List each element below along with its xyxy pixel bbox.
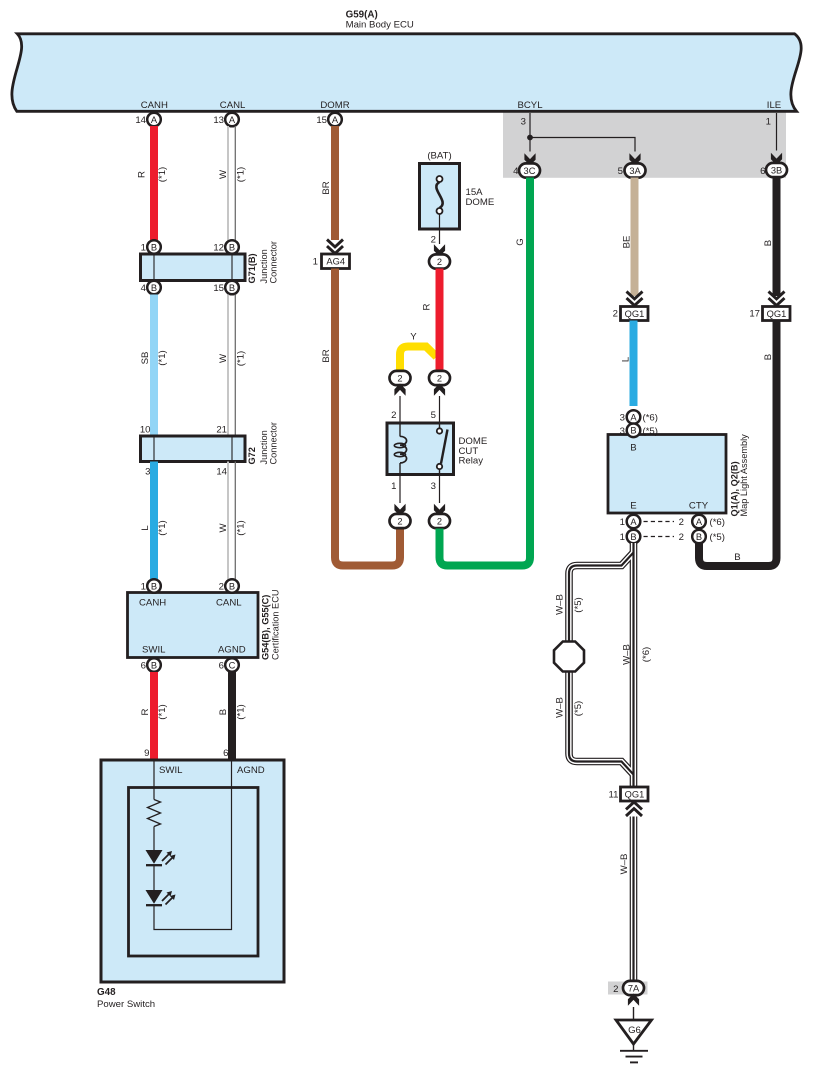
svg-text:A: A: [630, 412, 637, 422]
arrow chevrons into QG1 17: [769, 292, 785, 306]
svg-text:B: B: [734, 552, 740, 563]
svg-text:(*1): (*1): [236, 351, 247, 366]
svg-text:B: B: [696, 532, 702, 542]
arrow up into 7A: [628, 994, 639, 1006]
arrow into 3B: [771, 153, 782, 165]
svg-text:(BAT): (BAT): [427, 151, 451, 162]
svg-text:11: 11: [609, 790, 619, 801]
connector QG1 pin11: [621, 787, 649, 801]
svg-text:G54(B), G55(C): G54(B), G55(C): [261, 595, 271, 660]
svg-text:QG1: QG1: [767, 309, 787, 319]
LED 1: [146, 850, 163, 864]
svg-text:3: 3: [431, 481, 436, 492]
svg-text:4: 4: [141, 283, 147, 294]
svg-text:ILE: ILE: [767, 100, 781, 111]
wire Y: [400, 347, 437, 372]
power switch G48 box: [101, 760, 284, 982]
certification ECU G54(B) G55(C): [128, 593, 259, 658]
svg-text:SB: SB: [140, 352, 151, 365]
wire BCYL pin3 down: [529, 113, 531, 152]
wire: [153, 866, 155, 890]
connector 2 relay pin5: [429, 371, 450, 385]
svg-text:Connector: Connector: [269, 422, 279, 464]
svg-text:Junction: Junction: [259, 249, 269, 283]
svg-text:3A: 3A: [629, 166, 641, 176]
wire L left: [150, 462, 158, 580]
svg-text:2: 2: [397, 516, 402, 526]
wire W-B bottom: [630, 817, 638, 982]
svg-text:L: L: [140, 525, 151, 531]
wire bottom U: [154, 760, 232, 930]
svg-text:W: W: [218, 169, 229, 179]
svg-text:1: 1: [141, 582, 146, 593]
wire W middle: [227, 295, 229, 437]
svg-text:2: 2: [437, 257, 442, 267]
svg-text:Y: Y: [410, 332, 417, 343]
svg-text:BCYL: BCYL: [517, 100, 543, 111]
svg-text:2: 2: [679, 517, 684, 528]
wire BR from DOMR: [331, 126, 339, 240]
wire G from 3C to relay: [440, 178, 531, 566]
svg-text:1: 1: [313, 257, 318, 268]
svg-text:CANH: CANH: [139, 598, 166, 609]
wire W from CANL: [227, 126, 229, 241]
svg-text:Junction: Junction: [259, 430, 269, 464]
arrow up relay pin2: [394, 384, 405, 396]
svg-text:10: 10: [140, 425, 151, 436]
connector 2 below relay pin1: [390, 514, 411, 528]
svg-text:(*1): (*1): [236, 520, 247, 535]
svg-text:B: B: [763, 240, 774, 246]
svg-text:1: 1: [141, 243, 146, 254]
pin 3 B (*5): [627, 424, 641, 438]
svg-text:2: 2: [391, 410, 396, 421]
pin 3 A (*6): [627, 410, 641, 424]
junction node: [527, 135, 533, 141]
svg-text:3: 3: [620, 426, 625, 437]
pin 6 C (AGND): [225, 658, 239, 672]
svg-text:12: 12: [213, 243, 224, 254]
svg-text:E: E: [630, 501, 636, 512]
svg-text:2: 2: [431, 235, 436, 246]
svg-text:B: B: [151, 242, 157, 252]
wire R from CANH: [150, 126, 158, 242]
pin 1 A (E): [627, 515, 641, 529]
connector 2 below relay pin3: [429, 514, 450, 528]
svg-text:A: A: [151, 115, 158, 125]
connector QG1 pin17: [763, 307, 791, 321]
svg-text:(*1): (*1): [157, 704, 168, 719]
junction connector G71(B): [141, 254, 246, 281]
svg-text:AGND: AGND: [237, 765, 265, 776]
svg-text:(*6): (*6): [643, 413, 658, 424]
connector 7A: [623, 981, 644, 995]
svg-text:B: B: [151, 283, 157, 293]
svg-text:1: 1: [620, 517, 625, 528]
wire to ground: [633, 1007, 635, 1020]
svg-text:CANL: CANL: [220, 100, 246, 111]
svg-text:3: 3: [145, 467, 150, 478]
svg-text:W: W: [218, 523, 229, 533]
wire W lower: [227, 462, 229, 580]
svg-text:B: B: [630, 443, 636, 454]
relay switch: [439, 423, 441, 429]
svg-text:Relay: Relay: [459, 456, 484, 467]
svg-text:(*6): (*6): [641, 647, 652, 662]
svg-text:Q1(A), Q2(B): Q1(A), Q2(B): [730, 461, 740, 516]
wire W-B whites: [631, 543, 636, 787]
svg-text:W–B: W–B: [555, 697, 566, 718]
svg-text:AG4: AG4: [326, 257, 345, 267]
svg-text:1: 1: [766, 117, 771, 128]
arrow chevrons up from QG1 11: [626, 802, 642, 816]
wire relay pin5: [439, 396, 441, 423]
svg-text:AGND: AGND: [218, 645, 246, 656]
svg-text:W: W: [218, 353, 229, 363]
connector 3A: [625, 163, 646, 177]
svg-text:DOME: DOME: [466, 197, 495, 208]
connector AG4: [322, 254, 350, 269]
svg-text:Power Switch: Power Switch: [97, 999, 155, 1010]
svg-text:9: 9: [144, 748, 149, 759]
arrow into 3C: [524, 153, 535, 165]
svg-text:CANL: CANL: [216, 598, 242, 609]
arrow up relay pin5: [434, 384, 445, 396]
svg-text:W–B: W–B: [622, 644, 633, 665]
wire L right: [630, 321, 638, 407]
svg-text:CTY: CTY: [689, 501, 709, 512]
connector QG1 pin2: [621, 307, 649, 321]
svg-text:6: 6: [141, 661, 146, 672]
svg-text:14: 14: [135, 115, 146, 126]
pin 1 B: [147, 240, 161, 254]
gray highlight 7A: [608, 982, 648, 995]
connector 2 below fuse: [429, 254, 450, 268]
svg-text:L: L: [621, 356, 632, 362]
svg-text:(*1): (*1): [157, 167, 168, 182]
svg-text:(*5): (*5): [573, 701, 584, 716]
LED 2: [146, 890, 163, 904]
svg-text:2: 2: [613, 984, 618, 995]
relay coil: [399, 423, 401, 437]
svg-text:R: R: [137, 171, 148, 178]
svg-text:2: 2: [437, 373, 442, 383]
svg-text:A: A: [696, 517, 703, 527]
svg-text:Main Body ECU: Main Body ECU: [346, 20, 414, 31]
svg-text:6: 6: [219, 661, 224, 672]
svg-text:2: 2: [397, 373, 402, 383]
pin 15 terminal A (DOMR): [328, 113, 342, 127]
svg-text:17: 17: [749, 309, 760, 320]
wire SWIL internal: [153, 760, 155, 800]
connector 3C: [519, 163, 540, 177]
svg-text:(*5): (*5): [573, 597, 584, 612]
wire SB: [150, 295, 158, 437]
wire W-B branch (outer): [569, 553, 634, 775]
pin 14 terminal A (CANH): [147, 113, 161, 127]
svg-text:21: 21: [216, 425, 227, 436]
pin 2 B (CANL): [225, 579, 239, 593]
wire ILE pin1 down: [776, 113, 778, 151]
svg-text:2: 2: [679, 532, 684, 543]
svg-text:1: 1: [620, 532, 625, 543]
svg-text:C: C: [229, 660, 236, 670]
svg-text:13: 13: [213, 115, 224, 126]
svg-text:G48: G48: [97, 987, 116, 998]
power switch inner box: [129, 788, 259, 957]
svg-text:BE: BE: [622, 236, 633, 249]
svg-text:A: A: [229, 115, 236, 125]
fuse pin 2: [439, 214, 441, 244]
svg-text:(*1): (*1): [236, 704, 247, 719]
svg-text:CANH: CANH: [141, 100, 168, 111]
svg-text:G6: G6: [628, 1025, 641, 1036]
svg-text:A: A: [332, 115, 339, 125]
pin 6 B (SWIL): [147, 658, 161, 672]
svg-text:5: 5: [431, 410, 436, 421]
svg-text:(*1): (*1): [236, 167, 247, 182]
wire BR to relay: [335, 269, 400, 566]
svg-text:B: B: [630, 426, 636, 436]
wire BE from 3A: [631, 178, 639, 297]
relay pin1: [399, 475, 401, 504]
svg-text:W–B: W–B: [619, 854, 630, 875]
svg-text:B: B: [151, 581, 157, 591]
svg-text:3C: 3C: [524, 166, 536, 176]
svg-text:(*5): (*5): [643, 426, 658, 437]
relay pin3: [439, 475, 441, 504]
pin 2 A (CTY) (*6): [692, 515, 706, 529]
wire B AGND: [228, 672, 236, 760]
svg-text:15: 15: [213, 283, 224, 294]
svg-text:15: 15: [316, 115, 327, 126]
svg-text:G72: G72: [247, 447, 257, 464]
svg-text:(*5): (*5): [710, 532, 725, 543]
svg-text:SWIL: SWIL: [142, 645, 166, 656]
wire R SWIL: [150, 672, 158, 760]
svg-text:BR: BR: [321, 349, 332, 362]
svg-text:14: 14: [216, 467, 227, 478]
octagon symbol: [554, 642, 584, 672]
svg-text:B: B: [229, 242, 235, 252]
svg-text:B: B: [229, 581, 235, 591]
pin 1 B (CANH): [147, 579, 161, 593]
svg-text:R: R: [140, 708, 151, 715]
junction connector G72: [141, 436, 246, 462]
relay DOME CUT box: [387, 423, 454, 475]
wire relay pin2: [399, 396, 401, 423]
map light assembly Q1(A) Q2(B) box: [608, 435, 726, 514]
svg-text:SWIL: SWIL: [159, 765, 183, 776]
svg-text:Connector: Connector: [269, 241, 279, 283]
svg-text:(*6): (*6): [710, 517, 725, 528]
pin 4 B: [147, 281, 161, 295]
wire W-B main (outer): [630, 543, 638, 787]
dashed link A: [644, 521, 675, 523]
arrow into 3A: [629, 153, 640, 165]
svg-text:B: B: [151, 660, 157, 670]
pin 1 B (E): [627, 530, 641, 544]
svg-text:2: 2: [219, 582, 224, 593]
svg-text:G71(B): G71(B): [247, 253, 257, 283]
pin 12 B: [225, 240, 239, 254]
dashed link B: [644, 536, 675, 538]
svg-text:6: 6: [223, 748, 228, 759]
wire branch to 3A: [530, 138, 635, 152]
arrow chevrons into QG1: [627, 292, 643, 306]
gray highlight region BCYL/ILE: [503, 112, 786, 178]
svg-text:B: B: [229, 283, 235, 293]
svg-text:B: B: [763, 354, 774, 360]
svg-text:5: 5: [618, 166, 623, 177]
svg-text:B: B: [630, 532, 636, 542]
svg-text:W–B: W–B: [555, 594, 566, 615]
pin 15 B: [225, 281, 239, 295]
wire B to CTY: [699, 321, 777, 567]
wire: [153, 827, 155, 851]
resistor: [148, 800, 161, 827]
svg-text:4: 4: [513, 166, 519, 177]
svg-text:1: 1: [391, 481, 396, 492]
svg-text:2: 2: [613, 309, 618, 320]
svg-text:3: 3: [620, 413, 625, 424]
svg-text:QG1: QG1: [625, 309, 645, 319]
svg-text:7A: 7A: [628, 983, 640, 993]
svg-text:(*1): (*1): [157, 520, 168, 535]
pin 13 terminal A (CANL): [225, 113, 239, 127]
svg-text:B: B: [218, 709, 229, 715]
svg-text:G: G: [515, 238, 526, 245]
wire R fuse to relay: [436, 269, 444, 372]
arrow chevrons into AG4: [327, 240, 343, 254]
svg-text:3: 3: [521, 117, 526, 128]
svg-text:R: R: [422, 303, 433, 310]
connector 3B: [766, 163, 787, 177]
svg-text:(*1): (*1): [157, 350, 168, 365]
svg-text:Certification ECU: Certification ECU: [271, 590, 281, 660]
svg-text:A: A: [630, 517, 637, 527]
wire W-B stripes: [632, 543, 634, 787]
svg-text:DOMR: DOMR: [320, 100, 349, 111]
svg-text:BR: BR: [321, 181, 332, 194]
svg-text:2: 2: [437, 516, 442, 526]
svg-text:3B: 3B: [771, 165, 782, 175]
pin 2 B (CTY) (*5): [692, 530, 706, 544]
svg-text:6: 6: [760, 166, 765, 177]
svg-text:QG1: QG1: [625, 790, 645, 800]
svg-text:Map Light Assembly: Map Light Assembly: [739, 434, 749, 517]
ground G6: [616, 1020, 652, 1044]
connector 2 relay pin2: [390, 371, 411, 385]
main body ECU G59(A) band: [12, 34, 801, 112]
wire B from ILE: [773, 177, 781, 296]
